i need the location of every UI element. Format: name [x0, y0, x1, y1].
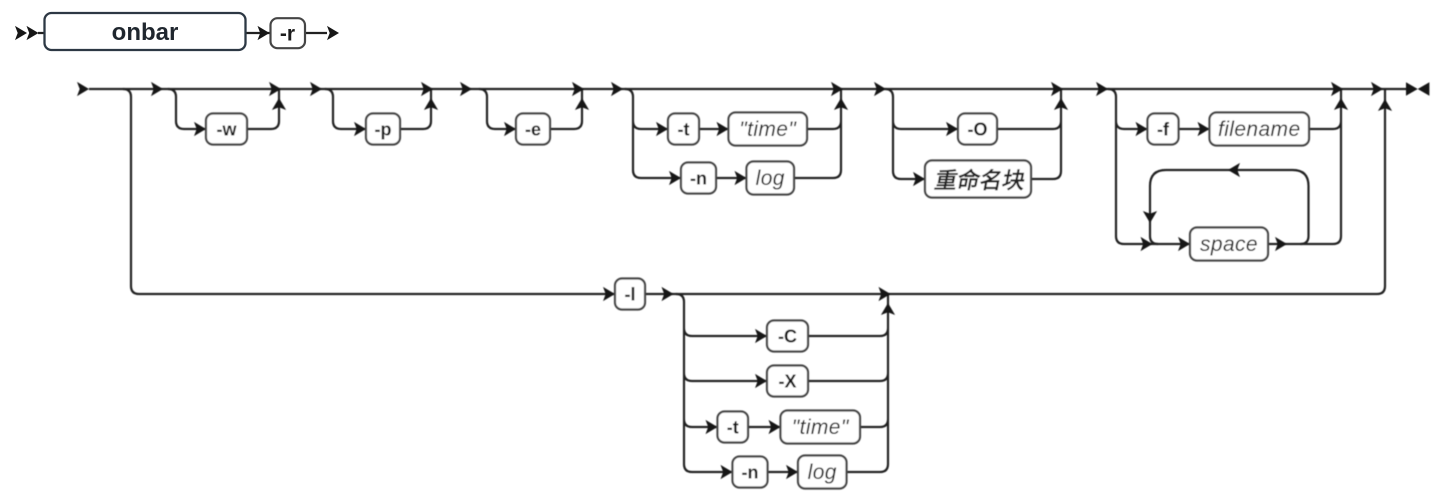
svg-text:-w: -w	[217, 119, 238, 139]
variable box log	[747, 162, 795, 195]
keyword box -O	[958, 114, 997, 145]
svg-text:space: space	[1200, 233, 1258, 256]
arrowhead left on loop top	[1228, 163, 1240, 177]
variable box lower time	[781, 411, 861, 444]
arrowhead up at options merge	[881, 303, 895, 315]
arrowhead on rail at -t/-n merge	[831, 82, 843, 96]
svg-text:-t: -t	[678, 119, 690, 139]
arrowhead on rail at options merge	[879, 287, 891, 301]
arrowhead before -e branch	[460, 82, 472, 96]
variable box space	[1190, 228, 1268, 261]
wire -w bypass branch	[168, 89, 279, 129]
arrowhead on rail at -O merge	[1051, 82, 1063, 96]
svg-text:-C: -C	[778, 326, 797, 346]
arrowhead before -p branch	[310, 82, 322, 96]
wire -l options stack verticals and rows	[676, 294, 888, 472]
svg-text:log: log	[756, 167, 785, 190]
arrowhead before -w branch	[151, 82, 163, 96]
keyword box -n	[681, 163, 716, 194]
variable box rename-blob	[925, 161, 1031, 198]
label rename-blob (CJK glyph paths)	[934, 169, 1026, 190]
arrowhead at space row entry	[1141, 237, 1153, 251]
arrowhead up at -e merge	[575, 98, 589, 110]
keyword box -t	[668, 114, 699, 145]
keyword box -e	[516, 114, 550, 145]
keyword box -C	[767, 321, 808, 352]
svg-text:-p: -p	[375, 119, 392, 139]
wire -f branch verticals and rows	[1108, 89, 1341, 244]
arrowhead before -f branch	[1096, 82, 1108, 96]
arrowhead on main rail at -l rejoin	[1371, 82, 1383, 96]
start symbol (double arrowhead) of line 1	[15, 26, 27, 40]
arrowhead before -l box	[603, 287, 615, 301]
arrowhead after -l box	[662, 287, 674, 301]
arrowhead before -p box	[354, 122, 366, 136]
variable box time	[729, 113, 808, 146]
arrowhead before rename-blob box	[913, 172, 925, 186]
arrowhead up at -p merge	[424, 98, 438, 110]
arrowhead up at -l rejoin	[1378, 99, 1392, 111]
keyword box onbar	[45, 13, 246, 50]
svg-text:"time": "time"	[792, 416, 850, 439]
arrowhead before -t box	[656, 122, 668, 136]
arrowhead on rail at -p merge	[421, 82, 433, 96]
arrowhead before lower -t box	[706, 420, 718, 434]
keyword box -w	[206, 114, 247, 145]
arrowhead down on loop left	[1143, 211, 1157, 223]
arrowhead before -t/-n branch	[611, 82, 623, 96]
arrowhead before -n box	[669, 171, 681, 185]
variable box lower log	[798, 456, 847, 489]
svg-text:-n: -n	[742, 462, 759, 482]
arrowhead before lower time box	[769, 420, 781, 434]
wire line-1 rail	[38, 32, 327, 34]
arrowhead up at -O merge	[1054, 98, 1068, 110]
arrowhead before -e box	[504, 122, 516, 136]
svg-text:-e: -e	[525, 119, 541, 139]
svg-text:"time": "time"	[739, 118, 797, 141]
arrowhead before space box	[1178, 237, 1190, 251]
start arrowhead line 2	[77, 82, 89, 96]
arrowhead before -f box	[1136, 122, 1148, 136]
arrowhead before -r	[258, 26, 270, 40]
arrowhead on rail at -e merge	[572, 82, 584, 96]
wire space repeat loop	[1150, 170, 1309, 244]
svg-text:-t: -t	[727, 417, 739, 437]
svg-text:-f: -f	[1157, 119, 1170, 139]
arrowhead up at -f merge	[1334, 98, 1348, 110]
keyword box -f	[1148, 114, 1179, 145]
svg-text:-l: -l	[625, 284, 636, 304]
wire -O branch verticals and rows	[885, 89, 1061, 179]
arrowhead before lower -n box	[721, 465, 733, 479]
keyword box -r	[271, 18, 306, 48]
arrowhead before -O branch	[874, 82, 886, 96]
wire -e bypass branch	[479, 89, 582, 129]
arrowhead before filename box	[1198, 122, 1210, 136]
keyword box -l	[615, 279, 645, 310]
arrowhead before -X box	[755, 374, 767, 388]
arrowhead before time box	[717, 122, 729, 136]
keyword box -p	[366, 114, 400, 145]
wire -t/-n branch verticals and rows	[625, 89, 841, 178]
arrowhead end of line 1	[327, 26, 339, 40]
arrowhead before -w box	[194, 122, 206, 136]
keyword box lower -n	[733, 457, 768, 488]
arrowhead on rail at -f merge	[1331, 82, 1343, 96]
arrowhead before -O box	[946, 122, 958, 136]
wire -l long branch rail	[123, 89, 1385, 294]
keyword box -X	[767, 366, 808, 397]
arrowhead before lower log box	[786, 465, 798, 479]
svg-text:-X: -X	[779, 371, 797, 391]
svg-text:onbar: onbar	[112, 19, 179, 46]
arrowhead up at -t/-n merge	[834, 98, 848, 110]
svg-text:-n: -n	[690, 168, 707, 188]
svg-text:filename: filename	[1218, 118, 1301, 141]
arrowhead after space box	[1275, 237, 1287, 251]
svg-text:-r: -r	[280, 23, 295, 46]
keyword box lower -t	[718, 412, 749, 443]
svg-text:log: log	[808, 461, 837, 484]
wire -p bypass branch	[325, 89, 431, 129]
end symbol (bowtie)	[1406, 82, 1418, 95]
arrowhead up at -w merge	[272, 98, 286, 110]
svg-text:-O: -O	[968, 119, 988, 139]
arrowhead before -C box	[755, 329, 767, 343]
arrowhead before log box	[735, 171, 747, 185]
variable box filename	[1210, 113, 1310, 146]
wire main rail line 2	[89, 88, 1406, 90]
arrowhead on rail at -w merge	[269, 82, 281, 96]
